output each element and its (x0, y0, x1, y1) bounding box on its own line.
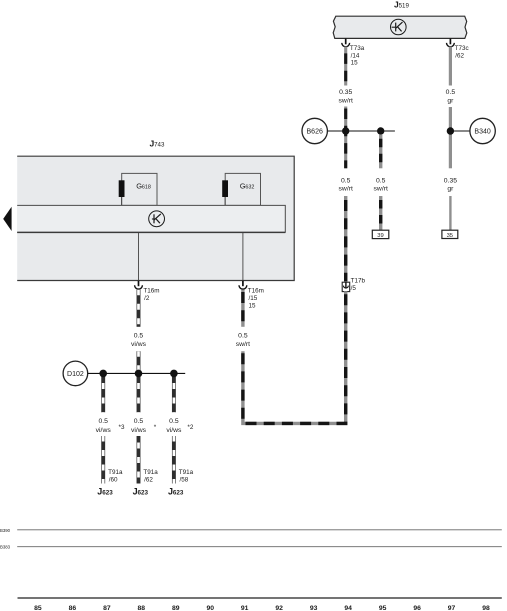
svg-text:*3: *3 (119, 424, 125, 431)
svg-text:sw/rt: sw/rt (339, 186, 353, 193)
svg-text:/15: /15 (249, 295, 258, 302)
svg-text:0.5: 0.5 (238, 332, 248, 339)
junction dot 2 (135, 370, 143, 378)
label T91a /60 (108, 469, 123, 484)
wire branch lower segment (379, 196, 382, 230)
svg-text:0.5: 0.5 (376, 177, 386, 184)
label G618 (136, 181, 151, 190)
track number baseline (18, 597, 502, 599)
svg-text:0.5: 0.5 (446, 89, 456, 96)
svg-text:92: 92 (275, 605, 283, 611)
sensor G632 box (225, 173, 260, 205)
svg-text:15: 15 (249, 302, 257, 309)
wire vi/ws branch 1 upper (101, 373, 105, 412)
bus line B383 (17, 546, 502, 548)
control unit J519 box (333, 16, 467, 38)
svg-text:sw/rt: sw/rt (374, 186, 388, 193)
svg-text:91: 91 (241, 605, 249, 611)
label 0.5 vi/ws (131, 333, 147, 349)
wire sw/rt through node B626 (344, 107, 347, 169)
track destination box 39 (372, 230, 389, 239)
svg-text:88: 88 (138, 605, 146, 611)
wire 0.5 sw/rt down to T17b (344, 196, 347, 281)
svg-text:T73a: T73a (350, 45, 365, 52)
wire gr through node B340 (449, 107, 452, 168)
svg-text:/62: /62 (455, 52, 464, 59)
node line to B340 (450, 130, 470, 132)
wire 0.5 sw/rt branch from dot (379, 135, 382, 169)
svg-text:87: 87 (103, 605, 111, 611)
label 0.5 vi/ws branch 3 (166, 418, 182, 434)
internal connection symbol K in J743 (149, 211, 165, 227)
label 0.5 vi/ws branch 2 (131, 418, 147, 434)
junction dot at sw/rt wire (342, 127, 349, 134)
internal wire to T16m/15 (242, 233, 244, 281)
svg-text:B383: B383 (0, 545, 11, 550)
svg-text:86: 86 (69, 605, 77, 611)
svg-text:15: 15 (351, 59, 359, 66)
svg-text:sw/rt: sw/rt (236, 341, 250, 348)
svg-text:*: * (154, 424, 157, 431)
svg-text:618: 618 (142, 184, 151, 190)
connector T73c at J519 (447, 38, 455, 46)
svg-text:0.5: 0.5 (134, 333, 144, 340)
track destination box 35 (442, 230, 458, 239)
svg-text:90: 90 (207, 605, 215, 611)
svg-text:gr: gr (447, 98, 454, 105)
internal wire to T16m/2 (138, 233, 140, 281)
svg-text:35: 35 (447, 233, 453, 239)
svg-text:89: 89 (172, 605, 180, 611)
svg-text:623: 623 (173, 490, 184, 497)
label T73a /14 15 (350, 45, 365, 66)
svg-text:B340: B340 (474, 129, 490, 136)
node line from D102 (88, 372, 186, 374)
wire vi/ws to node line (137, 351, 141, 373)
svg-text:98: 98 (482, 605, 490, 611)
internal bus bar of J743 (17, 205, 285, 232)
svg-text:D102: D102 (67, 371, 84, 378)
wire 0.5 gr upper segment (449, 47, 452, 86)
wire 0.5 vi/ws from T16m/2 (137, 290, 141, 327)
svg-text:B626: B626 (307, 129, 323, 136)
svg-text:93: 93 (310, 605, 318, 611)
internal connection symbol K in J519 (391, 19, 407, 35)
connector T16m/2 (135, 281, 143, 289)
svg-text:0.5: 0.5 (98, 418, 108, 425)
wire vi/ws branch 3 lower (172, 436, 176, 484)
svg-text:T91a: T91a (108, 469, 123, 476)
label J623 (2) (133, 487, 149, 497)
connector T73a at J519 (342, 38, 350, 46)
wire 0.35 sw/rt from T73a (upper segment) (344, 47, 347, 86)
label 0.5 vi/ws branch 1 (96, 418, 112, 434)
svg-text:/14: /14 (351, 52, 360, 59)
svg-text:0.35: 0.35 (339, 89, 352, 96)
label 0.5 sw/rt (J743 branch) (236, 332, 250, 348)
svg-text:97: 97 (448, 605, 456, 611)
svg-text:94: 94 (344, 605, 352, 611)
connector T16m/15 (239, 281, 247, 289)
label T91a /58 (179, 469, 194, 484)
label 0.5 sw/rt (main run) (339, 177, 353, 192)
label T73c /62 (455, 45, 469, 59)
label 0.35 sw/rt (339, 89, 353, 105)
label 0.5 sw/rt (branch) (374, 177, 388, 192)
svg-text:T91a: T91a (179, 469, 194, 476)
track numbers 85-98 (34, 605, 490, 611)
svg-text:vi/ws: vi/ws (131, 427, 147, 434)
svg-text:/62: /62 (144, 477, 153, 484)
label 0.5 gr (446, 89, 456, 105)
junction dot 3 (170, 370, 178, 378)
bus line B390 (17, 529, 502, 531)
junction dot 1 (99, 370, 107, 378)
svg-text:0.5: 0.5 (341, 177, 351, 184)
svg-text:B390: B390 (0, 528, 11, 533)
svg-text:*2: *2 (187, 424, 193, 431)
svg-text:519: 519 (399, 3, 410, 10)
svg-text:85: 85 (34, 605, 42, 611)
svg-text:95: 95 (379, 605, 387, 611)
svg-text:vi/ws: vi/ws (96, 427, 112, 434)
label T91a /62 (143, 469, 158, 484)
connector T17b inline (342, 282, 350, 291)
svg-text:T16m: T16m (248, 288, 264, 295)
wire vi/ws branch 3 upper (172, 373, 176, 412)
wire vi/ws branch 2 upper (137, 373, 141, 412)
label T16m /15 15 (248, 288, 264, 310)
svg-text:623: 623 (138, 490, 149, 497)
svg-text:/58: /58 (180, 477, 189, 484)
wire vi/ws branch 1 lower (101, 436, 105, 484)
junction dot gr wire (447, 127, 454, 134)
label J623 (1) (97, 487, 113, 497)
label G632 (240, 181, 255, 190)
svg-text:623: 623 (102, 490, 113, 497)
junction dot branch (377, 127, 384, 134)
svg-text:/60: /60 (109, 477, 118, 484)
wire vi/ws branch 2 lower (137, 436, 141, 484)
wire 0.5 sw/rt from T17b down, left and up to J743 (243, 291, 346, 423)
svg-text:sw/rt: sw/rt (339, 98, 353, 105)
svg-text:743: 743 (154, 142, 165, 149)
wire 0.5 sw/rt upper segment to T16m/15 (241, 290, 244, 327)
svg-text:0.35: 0.35 (444, 177, 457, 184)
svg-text:/5: /5 (351, 285, 357, 292)
connection point D102 (63, 361, 88, 386)
label 0.35 gr (444, 177, 457, 192)
svg-text:T17b: T17b (351, 278, 366, 285)
svg-text:T91a: T91a (143, 469, 158, 476)
label T17b /5 (351, 278, 366, 292)
svg-text:632: 632 (245, 184, 254, 190)
label J743 (150, 139, 165, 149)
wire 0.35 gr lower segment (449, 196, 451, 230)
svg-text:0.5: 0.5 (169, 418, 179, 425)
svg-text:gr: gr (447, 186, 454, 193)
svg-text:vi/ws: vi/ws (131, 341, 147, 348)
svg-text:0.5: 0.5 (134, 418, 144, 425)
sensor G618 box (122, 173, 157, 205)
connection point B626 (302, 118, 327, 143)
continuation arrow at left of bus bar (3, 207, 11, 231)
control unit J743 box (17, 156, 294, 280)
connection point B340 (470, 118, 495, 143)
svg-text:T16m: T16m (143, 288, 159, 295)
node line from B626 (328, 130, 395, 132)
label J623 (3) (168, 487, 184, 497)
svg-text:/2: /2 (144, 295, 150, 302)
svg-text:96: 96 (413, 605, 421, 611)
label J519 (394, 0, 409, 10)
sensor element G618 (121, 197, 123, 205)
svg-text:vi/ws: vi/ws (166, 427, 182, 434)
svg-text:T73c: T73c (455, 45, 469, 52)
sensor element G632 (224, 197, 226, 205)
svg-text:39: 39 (377, 233, 383, 239)
label T16m /2 (143, 288, 159, 303)
